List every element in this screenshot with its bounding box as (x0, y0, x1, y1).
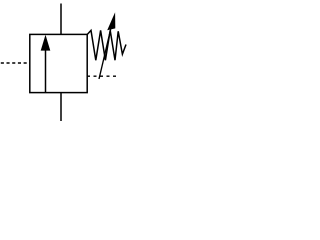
valve body square (30, 34, 87, 92)
flow path arrowhead (41, 35, 51, 51)
pilot line dashed left (1, 62, 29, 64)
wire top port P line (60, 4, 62, 35)
adjustment arrowhead (107, 12, 115, 30)
spring zigzag (87, 30, 126, 60)
drain line dashed right (87, 75, 120, 77)
wire bottom port T line (60, 93, 62, 122)
adjustment arrow shaft (99, 29, 111, 79)
flow path arrow stem inside valve (45, 48, 47, 93)
